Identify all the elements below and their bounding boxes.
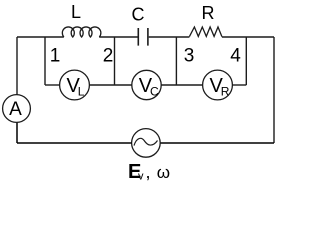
capacitor C [132, 5, 148, 46]
node 1 [45, 37, 60, 85]
voltmeter VC [132, 70, 161, 99]
svg-text:C: C [132, 5, 145, 25]
svg-text:L: L [71, 2, 81, 22]
wire left vertical lower [16, 122, 18, 143]
node 4 [230, 37, 246, 85]
resistor R [189, 3, 222, 37]
svg-text:C: C [150, 85, 159, 99]
wire between C and R [149, 36, 190, 38]
svg-text:A: A [9, 99, 22, 120]
svg-text:4: 4 [230, 46, 241, 67]
wire between L and C [99, 36, 137, 38]
wire bottom-left segment [17, 142, 132, 144]
wire right vertical [273, 37, 275, 143]
voltmeter VR [203, 70, 233, 100]
wire VL to VC [89, 84, 132, 86]
voltmeter VL [60, 70, 90, 100]
AC source Ev [128, 129, 170, 183]
svg-text:2: 2 [103, 46, 114, 67]
ammeter A [3, 95, 31, 123]
svg-text:,: , [146, 162, 151, 182]
wire VC to VR [161, 84, 202, 86]
svg-text:3: 3 [184, 46, 195, 67]
svg-text:R: R [202, 3, 215, 23]
wire R to top-right corner [222, 36, 274, 38]
svg-text:1: 1 [50, 46, 61, 67]
svg-text:L: L [78, 85, 85, 99]
wire top-left segment [17, 36, 64, 38]
svg-text:ω: ω [157, 163, 170, 182]
svg-text:R: R [221, 85, 230, 99]
wire bottom-right segment [161, 142, 275, 144]
inductor L [62, 2, 101, 37]
node 2 [103, 37, 115, 85]
node 3 [176, 37, 194, 85]
wire node1 to VL [45, 84, 60, 86]
svg-text:v: v [138, 171, 144, 183]
wire VR to node4 [232, 84, 246, 86]
wire left vertical upper [16, 37, 18, 95]
